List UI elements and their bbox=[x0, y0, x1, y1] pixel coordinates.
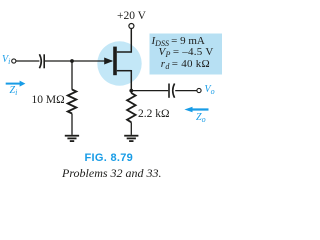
label Vi bbox=[2, 55, 10, 66]
node A junction bbox=[70, 59, 74, 63]
label IDSS value bbox=[152, 36, 205, 48]
arrow Zi bbox=[6, 81, 26, 87]
label rd value bbox=[161, 59, 210, 71]
output terminal Vo bbox=[197, 88, 201, 92]
wire source down bbox=[130, 70, 132, 93]
wire gate bbox=[45, 60, 112, 62]
label 10 MOhm bbox=[32, 95, 65, 107]
capacitor C2 bbox=[169, 84, 175, 98]
wire node A to RG bbox=[71, 61, 73, 90]
supply terminal +20V bbox=[129, 24, 134, 29]
resistor RG 10 MOhm bbox=[68, 90, 77, 114]
caption FIG. 8.79 bbox=[85, 153, 134, 164]
caption Problems 32 and 33 bbox=[62, 167, 162, 179]
label 2.2 kOhm bbox=[138, 109, 170, 121]
ground (RG) bbox=[65, 136, 79, 141]
wire C2 to output terminal bbox=[175, 90, 197, 92]
label Zo bbox=[196, 113, 206, 124]
ground (RS) bbox=[124, 136, 138, 141]
node B junction bbox=[129, 89, 133, 93]
resistor RS 2.2 kOhm bbox=[127, 93, 136, 122]
transistor highlight circle bbox=[97, 41, 141, 85]
wire input to C1 bbox=[16, 60, 39, 62]
arrow Zo bbox=[184, 107, 208, 112]
transistor Q1 JFET bbox=[104, 47, 131, 76]
wire RG to ground bbox=[71, 114, 73, 135]
label Zi bbox=[10, 86, 18, 97]
parameter box bbox=[150, 34, 223, 75]
capacitor C1 bbox=[39, 54, 44, 68]
wire drain to supply bbox=[130, 29, 132, 53]
label +20 V bbox=[117, 11, 146, 23]
input terminal Vi bbox=[12, 59, 16, 63]
wire node B to C2 bbox=[131, 90, 168, 92]
label VP value bbox=[159, 47, 214, 59]
wire RS to ground bbox=[130, 122, 132, 135]
label Vo bbox=[205, 85, 215, 96]
